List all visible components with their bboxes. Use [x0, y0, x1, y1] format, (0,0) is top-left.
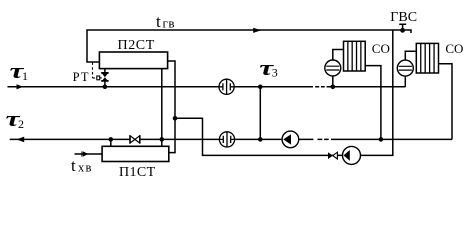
svg-text:хв: хв: [78, 161, 93, 175]
svg-text:СО: СО: [372, 41, 390, 56]
svg-text:гв: гв: [163, 15, 175, 30]
svg-text:П2СТ: П2СТ: [118, 38, 155, 53]
svg-text:2: 2: [18, 117, 24, 131]
svg-text:1: 1: [22, 69, 28, 83]
svg-text:П1СТ: П1СТ: [119, 165, 156, 180]
svg-text:t: t: [71, 156, 76, 175]
svg-text:t: t: [156, 12, 161, 31]
svg-text:3: 3: [272, 66, 278, 80]
svg-text:ГВС: ГВС: [390, 10, 417, 25]
svg-text:СО: СО: [445, 41, 463, 56]
svg-text:РТ: РТ: [73, 70, 90, 84]
